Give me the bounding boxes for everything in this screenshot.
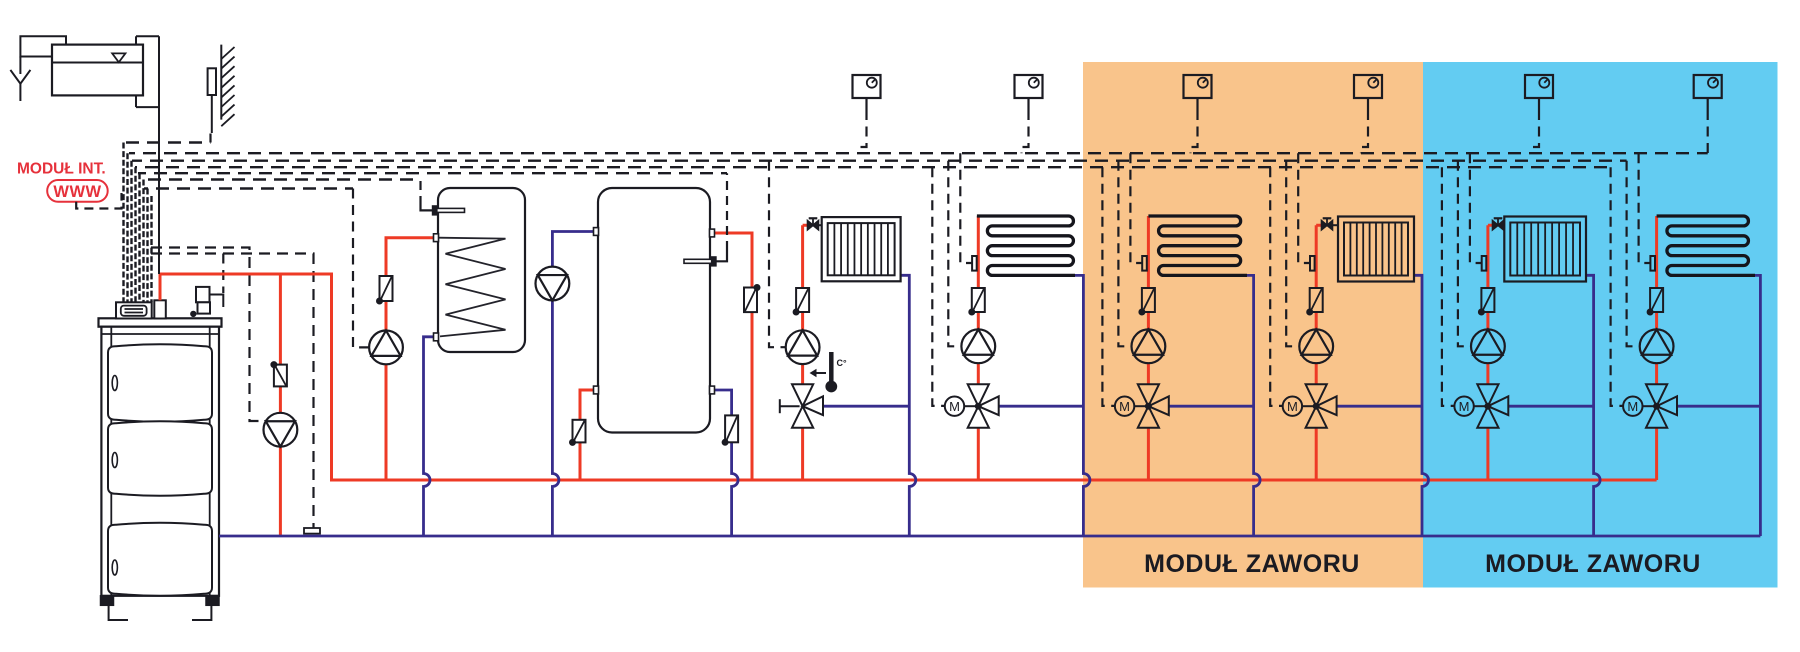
pipe: circuit 6 floor return <box>1755 275 1760 536</box>
sensor: DHW charge pipe <box>377 276 393 304</box>
room thermostat 4 <box>1354 75 1382 110</box>
clamp sensor circuit 4 riser <box>1310 256 1315 271</box>
sensor: buffer feed pipe <box>570 420 586 446</box>
wire: bus to circuit 5 pump <box>1458 161 1471 347</box>
floor heating coil circuit 6 <box>1657 216 1755 275</box>
wire: bundle to return-pipe clamp sensor <box>151 254 314 529</box>
wire: thermostat 4 to bus <box>1361 110 1368 153</box>
pipe: boiler supply to sensor well <box>159 274 162 300</box>
svg-text:M: M <box>1627 399 1638 414</box>
pipe: circuit 1 riser (radiator) <box>803 225 808 480</box>
wire: WWW badge to cable bundle <box>76 193 121 209</box>
bus wire L3 pump line <box>132 159 1627 161</box>
room thermostat 3 <box>1184 75 1212 110</box>
sensor: circuit 1 supply <box>793 288 809 315</box>
sensor: circuit 2 supply <box>969 288 985 315</box>
pipe: circuit 2 riser (floor) <box>977 216 980 480</box>
svg-text:M: M <box>1287 399 1298 414</box>
label: MODUL ZAWORU (orange zone) <box>1144 550 1360 578</box>
pipe: buffer charge line with pump <box>552 232 593 537</box>
pipe: circuit 3 valve mixing tap <box>1169 405 1254 408</box>
boiler door 3 with handle <box>108 523 212 596</box>
pump P3 buffer charging <box>536 267 570 301</box>
wire: bus to circuit 5 clamp sensor <box>1470 153 1482 263</box>
pump P1 boiler anti-condensation <box>264 413 298 447</box>
pipe: buffer tank feed from header <box>580 390 594 480</box>
wire: bus to circuit 4 clamp sensor <box>1298 153 1310 263</box>
pipe: buffer bottom return <box>715 390 739 536</box>
svg-text:M: M <box>1119 399 1130 414</box>
pump P9 circuit 6 <box>1640 329 1674 363</box>
expansion vessel (open) with water level mark <box>52 45 143 96</box>
wire: buffer probe to bus <box>726 173 728 250</box>
3-way mixing valve with actuator M circuit 3 <box>1115 384 1169 427</box>
wire: wall sensor drop elbow <box>209 133 211 143</box>
pipe: circuit 5 radiator return <box>1586 275 1600 536</box>
3-way mixing valve with actuator M circuit 2 <box>945 384 999 427</box>
wall hatching <box>221 45 234 127</box>
pump P8 circuit 5 <box>1471 329 1505 363</box>
wire: bus to circuit 4 pump <box>1286 161 1299 347</box>
floor heating coil circuit 3 <box>1148 216 1247 275</box>
bus wire L7 dhw-pump line <box>144 187 353 189</box>
floor heating coil circuit 2 <box>977 216 1075 275</box>
label: MODUL ZAWORU (blue zone) <box>1485 550 1701 578</box>
clamp sensor circuit 6 riser <box>1650 256 1655 271</box>
wire: bus to circuit 6 pump <box>1627 161 1640 347</box>
wire: bundle to boiler pump <box>151 248 266 422</box>
sensor: circuit 5 supply <box>1478 288 1494 315</box>
pipe: circuit 6 valve mixing tap <box>1677 405 1760 408</box>
DHW internal heating coil <box>439 238 506 337</box>
pump P5 circuit 2 <box>961 329 995 363</box>
wall-mounted sensor <box>208 68 216 133</box>
wire: thermostat 2 to bus <box>1022 110 1029 153</box>
pump P2 DHW charging <box>369 331 403 365</box>
buffer temperature probe <box>684 250 727 266</box>
room thermostat 6 <box>1694 75 1722 110</box>
3-way mixing valve with actuator M circuit 4 <box>1283 384 1337 427</box>
clamp sensor circuit 3 riser <box>1142 256 1147 271</box>
wire: thermostat 5 to bus <box>1532 110 1539 153</box>
radiator circuit 4 <box>1333 217 1415 282</box>
pipe: circuit 5 valve mixing tap <box>1508 405 1593 408</box>
wire: thermostat 1 to bus <box>860 110 867 153</box>
pipe: boiler anti-condensation branch <box>279 274 282 536</box>
wire: thermostat 3 to bus <box>1191 110 1198 153</box>
wire: bus to circuit 6 valve actuator <box>1611 167 1624 406</box>
wire: bus to circuit 3 clamp sensor <box>1130 153 1142 263</box>
clamp sensor on return pipe <box>304 528 320 534</box>
wire: bus to circuit 3 pump <box>1118 161 1131 347</box>
svg-text:WWW: WWW <box>53 183 101 201</box>
thermostatic radiator valve circuit 1 <box>808 218 819 229</box>
pipe: buffer hot outlet to circuits <box>715 233 753 480</box>
buffer port bottom-left <box>594 386 599 394</box>
svg-text:MODUŁ INT.: MODUŁ INT. <box>17 161 106 178</box>
room thermostat 2 <box>1015 75 1043 110</box>
cable bundle to boiler controller <box>124 143 152 303</box>
buffer port top-left <box>594 228 599 236</box>
pipe: circuit 6 riser (floor) <box>1655 216 1658 480</box>
pipe: circuit 3 riser (floor) <box>1147 216 1150 480</box>
wire: bus to circuit 6 clamp sensor <box>1639 153 1651 263</box>
boiler controller on top <box>116 302 152 318</box>
wire: bus to circuit 2 pump <box>948 161 961 347</box>
overflow funnel (drain) <box>10 70 30 101</box>
thermostatic radiator valve circuit 4 <box>1322 218 1333 229</box>
thermometer with C deg label circuit 1 <box>811 352 847 392</box>
sensor: circuit 3 supply <box>1139 288 1155 315</box>
safety riser pipe boiler-to-vessel <box>136 36 159 274</box>
wire: bus to circuit 3 valve actuator <box>1102 167 1115 406</box>
solid-fuel boiler body <box>99 318 222 596</box>
wire: bus to circuit 2 valve actuator <box>932 167 945 406</box>
pipe: circuit 1 radiator return <box>901 275 916 536</box>
pipe: circuit 2 valve mixing tap <box>999 405 1084 408</box>
pipe: circuit 5 riser (radiator) <box>1488 225 1493 480</box>
3-way mixing valve with actuator M circuit 5 <box>1454 384 1508 427</box>
wire: control line to flue draft regulator <box>222 254 224 294</box>
pipe: return header <box>219 535 1760 538</box>
wire: thermostat 6 to bus <box>1707 110 1709 153</box>
DHW temperature probe <box>421 205 465 215</box>
pipe: circuit 4 valve mixing tap <box>1337 405 1422 408</box>
bus wire L5 buffer-sensor line <box>138 172 727 174</box>
zone background: orange MODUL ZAWORU module <box>1083 62 1423 588</box>
wire: bus to circuit 5 valve actuator <box>1442 167 1455 406</box>
svg-text:M: M <box>1459 399 1470 414</box>
svg-text:M: M <box>949 399 960 414</box>
DHW tank return port <box>434 333 439 341</box>
pipe: circuit 4 riser (radiator) <box>1316 225 1321 480</box>
thermostatic radiator valve circuit 5 <box>1493 218 1504 229</box>
buffer tank <box>598 188 710 433</box>
radiator circuit 1 <box>818 217 900 281</box>
buffer port bottom-right <box>710 386 715 394</box>
DHW cylinder <box>438 188 525 352</box>
buffer port top-right <box>710 229 715 237</box>
sensor: circuit 6 supply <box>1647 288 1663 315</box>
bus wire L6 dhw-sensor line <box>141 178 421 180</box>
clamp sensor circuit 5 riser <box>1482 256 1487 271</box>
clamp sensor circuit 2 riser <box>972 256 977 271</box>
pump P6 circuit 3 <box>1132 329 1166 363</box>
bus wire L2 thermostat/contact line <box>129 152 1708 154</box>
sensor: boiler return-protection <box>271 362 287 387</box>
boiler door 1 with handle <box>108 344 212 421</box>
boiler feet <box>101 596 220 620</box>
overflow pipe from expansion vessel <box>20 36 66 74</box>
svg-text:C°: C° <box>837 358 847 368</box>
wire: bus to DHW pump <box>353 189 369 348</box>
pipe: DHW charging riser <box>386 238 434 480</box>
pipe: circuit 1 valve mixing tap <box>823 405 909 408</box>
pipe: DHW tank return <box>424 337 434 536</box>
label: MODUL INT. (internet module) <box>17 161 106 178</box>
3-way mixing valve circuit 1 (manual) <box>780 384 823 427</box>
bus wire L1 to wall sensor <box>126 141 211 143</box>
room thermostat 5 <box>1525 75 1553 110</box>
boiler door 2 with handle <box>108 421 212 495</box>
pipe: circuit 2 floor return <box>1075 275 1090 536</box>
DHW tank supply port <box>434 234 439 242</box>
sensor: buffer bottom return pipe <box>722 415 738 445</box>
3-way mixing valve with actuator M circuit 6 <box>1623 384 1677 427</box>
wire: bus to circuit 4 valve actuator <box>1270 167 1283 406</box>
WWW badge (internet) <box>47 180 107 202</box>
pump P7 circuit 4 <box>1299 329 1333 363</box>
pipe: red supply header <box>160 274 1657 480</box>
pump P4 circuit 1 <box>786 330 820 364</box>
boiler flue draft regulator <box>191 287 224 317</box>
pipe: circuit 4 radiator return <box>1414 275 1429 536</box>
boiler sensor well <box>154 300 166 318</box>
wire: DHW probe to bus <box>419 180 421 206</box>
svg-text:MODUŁ ZAWORU: MODUŁ ZAWORU <box>1144 550 1360 578</box>
wire: bus to circuit 1 pump <box>769 161 786 348</box>
sensor: buffer supply-out pipe <box>744 285 760 313</box>
pipe: circuit 3 floor return <box>1247 275 1260 536</box>
zone background: blue MODUL ZAWORU module <box>1423 62 1778 588</box>
sensor: circuit 4 supply <box>1307 288 1323 315</box>
bus wire L4 mixing-valve line <box>135 166 1611 168</box>
wire: bus to circuit 2 clamp sensor <box>960 153 972 263</box>
svg-text:MODUŁ ZAWORU: MODUŁ ZAWORU <box>1485 550 1701 578</box>
room thermostat 1 <box>853 75 881 110</box>
radiator circuit 5 <box>1504 217 1587 282</box>
